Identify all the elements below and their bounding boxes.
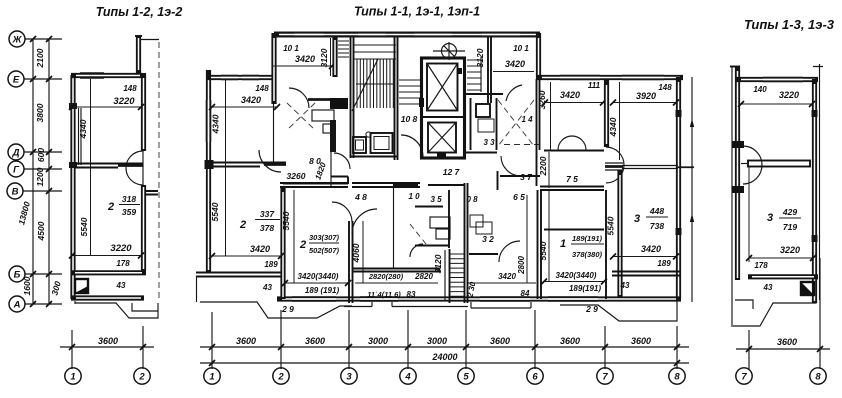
cupboard rects [312,110,334,121]
wall above strip 43 [748,274,818,279]
svg-text:1600: 1600 [22,276,32,295]
wc fixtures lower [430,217,450,228]
entrance vestibule steps [338,41,349,57]
stair direction diagonal [352,59,378,111]
svg-text:3: 3 [634,213,640,225]
svg-text:111: 111 [588,81,601,90]
porch outline bottom-right [560,301,677,321]
partition with leaf [748,161,810,167]
corridor bottom wall right part [540,187,604,191]
duct dark band [330,120,336,152]
svg-text:3120: 3120 [475,48,485,67]
axis leader lines [23,39,62,304]
landing steps by elevator [399,80,420,104]
elevator shaft divider [421,116,465,118]
left outer wall [70,75,75,299]
shelf edge [480,57,482,92]
svg-text:1: 1 [209,372,214,383]
svg-text:2 9: 2 9 [585,304,598,314]
window in top wall [80,73,104,78]
axis circle 8 right [810,368,826,384]
entrance semicircle door [743,146,762,184]
svg-text:738: 738 [650,221,664,231]
svg-text:3 5: 3 5 [430,195,442,204]
corridor bottom wall left part [280,183,465,187]
elevator car 1 with X [427,64,458,111]
stairwell left wall [351,37,354,158]
balcony door nubs right wall [812,110,818,117]
dim line row 1 [200,346,689,348]
svg-text:5540: 5540 [79,217,89,236]
svg-text:303(307): 303(307) [309,233,340,242]
stairwell right wall [395,37,398,160]
svg-text:448: 448 [649,206,664,216]
corridor door arc left [401,135,423,157]
svg-text:4500: 4500 [36,221,46,241]
kitchen wall [349,221,353,303]
door arcs hall to rooms [332,202,352,222]
svg-text:5540: 5540 [281,211,291,230]
svg-text:3120: 3120 [319,48,329,67]
axis circle Ж [9,31,25,47]
svg-text:1200: 1200 [35,167,45,186]
wall between room 10.1L and stairs [332,37,337,77]
windows tower top [294,34,520,36]
shelf steps [467,60,481,90]
svg-text:3: 3 [767,212,773,224]
svg-text:3420: 3420 [505,59,525,69]
vertical dimension lines left [33,39,49,304]
svg-text:Е: Е [13,75,20,86]
wall under small rooms row [415,206,443,208]
elevator car 2 with X [428,123,456,153]
svg-text:Типы 1-2, 1э-2: Типы 1-2, 1э-2 [96,5,183,19]
door arc room 148 [259,150,281,172]
svg-text:148: 148 [255,84,269,93]
stair upper landing lines [354,45,396,52]
interior dim extension lines [226,80,550,283]
top jog [730,66,740,68]
dashed door swing [410,224,426,244]
dimension ticks left column [30,36,52,307]
svg-text:2200: 2200 [538,156,548,176]
svg-text:3220: 3220 [110,243,132,254]
pier lines inner left [79,108,82,165]
wc partition walls [415,190,449,248]
svg-text:3420: 3420 [241,95,261,105]
svg-text:4340: 4340 [211,114,221,134]
porch outline below [75,301,158,318]
svg-text:В: В [12,187,19,198]
svg-text:189: 189 [657,259,671,268]
svg-text:Д: Д [12,148,20,159]
dim line 3220 upper [72,106,141,108]
svg-text:3420(3440): 3420(3440) [298,272,339,281]
svg-text:3 7: 3 7 [520,172,533,182]
left plan bottom dims [60,326,154,384]
wall jog above room 303 [331,177,348,185]
corridor line to room3 [622,166,694,169]
svg-text:3420: 3420 [295,54,315,64]
wall between room2L and hall [280,187,285,299]
svg-text:83: 83 [407,290,416,299]
svg-text:4060: 4060 [351,243,361,263]
top wall [735,77,818,82]
svg-text:337: 337 [260,209,275,219]
svg-text:84: 84 [521,289,530,298]
svg-text:11ʾ4(11 6): 11ʾ4(11 6) [367,290,401,299]
svg-text:148: 148 [658,83,672,92]
svg-text:318: 318 [122,194,136,204]
stair mid line [356,83,394,85]
svg-text:3: 3 [346,372,352,383]
svg-text:178: 178 [116,259,130,268]
wall between apt1 and room3 [605,190,607,299]
svg-text:1: 1 [560,238,566,250]
svg-text:189(191): 189(191) [572,234,603,243]
tower right wall [536,33,541,79]
svg-text:Б: Б [14,270,21,281]
svg-text:1 4: 1 4 [521,115,533,124]
svg-text:3420: 3420 [641,244,661,254]
entrance step lines bottom [344,302,531,308]
svg-text:429: 429 [782,207,797,217]
neighbour wall stub [146,191,158,195]
svg-text:3800: 3800 [35,103,45,122]
svg-text:4 8: 4 8 [354,192,367,202]
wall junction blobs [69,103,77,109]
porch outline [733,280,816,326]
svg-text:5540: 5540 [538,241,548,260]
windows bottom wall [292,298,598,300]
svg-text:178: 178 [754,261,768,270]
black box right [801,282,814,295]
svg-text:3260: 3260 [287,171,306,181]
roof line to section cut [141,39,159,41]
far right edge [813,64,823,300]
svg-text:6 5: 6 5 [513,192,525,202]
wall left of room 10.1 right [488,37,491,103]
balcony left wall strip [196,273,284,277]
svg-text:3420(3440): 3420(3440) [556,271,597,280]
wall kitchen right [393,187,395,268]
stair treads [357,59,393,108]
svg-text:4340: 4340 [78,119,88,139]
axis circle 2 left [134,368,150,384]
svg-text:2100: 2100 [35,48,45,68]
wall under room 3420 with double doors [544,150,604,152]
junction blob left wall [205,160,214,169]
elevator shaft outer box [422,58,465,158]
landing line [354,58,396,60]
corridor door arc right [501,156,521,176]
svg-text:3600: 3600 [777,337,797,347]
entrance semicircle door apt3 [606,147,624,183]
bottom wall [71,295,144,300]
right wall lower [141,185,146,271]
stair tower left wall [271,33,276,104]
axis circles 1-8 middle [204,368,685,384]
wall right of 3420 room [538,190,542,299]
svg-text:2800: 2800 [517,256,526,275]
svg-text:3220: 3220 [113,96,135,107]
svg-text:6: 6 [532,372,538,383]
stair hall door arc [334,153,350,169]
svg-text:189: 189 [264,260,278,269]
svg-text:43: 43 [763,283,773,292]
dim line room 10.1 right [493,71,534,73]
door arc in right wall [126,151,143,185]
svg-text:8: 8 [674,372,680,383]
svg-text:7 5: 7 5 [566,174,578,184]
right wall [812,79,817,303]
windows top-right wall [560,77,664,79]
partition hall wall left apt [206,163,286,167]
wall under room 10.1 left [308,98,336,101]
svg-text:10 1: 10 1 [283,44,299,53]
svg-text:7: 7 [741,372,747,383]
svg-text:Ж: Ж [12,35,23,46]
svg-text:3600: 3600 [236,336,256,346]
top wall [71,73,143,78]
svg-text:43: 43 [620,281,630,290]
svg-text:719: 719 [783,222,797,232]
svg-text:3600: 3600 [631,336,651,346]
right outer thin line with arrows [691,77,693,302]
interior dim extension line [90,79,92,255]
svg-text:3 2: 3 2 [482,234,494,244]
svg-text:3260: 3260 [537,90,547,109]
right wall upper [141,73,146,151]
top-left wall [206,75,276,80]
lower stair flight [450,183,468,303]
svg-text:189(191): 189(191) [569,284,601,293]
elevator door nubs [419,98,424,107]
window top-left wall [221,77,259,79]
svg-text:10 8: 10 8 [401,114,418,124]
upper right vestibule walls [470,98,472,150]
vestibule wall [466,93,503,95]
vestibule lower walls [465,153,540,191]
svg-text:2: 2 [299,239,306,251]
svg-text:3000: 3000 [427,336,447,346]
axis circle Г [8,161,24,177]
wall above room 11.4 [352,269,440,272]
left axis circles column [7,31,25,312]
mid partition wall with door leaf [74,164,143,168]
svg-text:140: 140 [753,85,767,94]
right dashed axis line [158,42,160,300]
closet dashed right 1.4 [498,100,539,146]
svg-text:24000: 24000 [431,352,457,362]
small door arc wc [410,244,423,257]
door arc room 3420 [499,241,520,262]
porch outline bottom-left [200,302,352,318]
wall above strip 43 right [612,272,681,276]
svg-text:2: 2 [277,372,284,383]
svg-text:189 (191): 189 (191) [305,286,340,295]
svg-text:12 7: 12 7 [443,167,461,177]
svg-text:3420: 3420 [498,272,516,281]
svg-text:Типы 1-3, 1э-3: Типы 1-3, 1э-3 [744,17,835,32]
svg-text:3000: 3000 [368,336,388,346]
svg-text:1 0: 1 0 [408,192,420,201]
tower top wall [274,32,540,38]
svg-text:2 9: 2 9 [281,304,294,314]
left outer wall [206,70,211,272]
svg-text:5540: 5540 [606,216,616,235]
svg-text:378: 378 [260,223,274,233]
axis circle Е [8,71,24,87]
axis circle В [7,183,23,199]
svg-text:1: 1 [70,372,75,383]
svg-text:148: 148 [123,84,137,93]
axis circle 7 right [736,368,752,384]
wall left of lower stairs [444,250,446,300]
middle plan bottom dims [200,310,689,384]
right outer wall [676,77,681,299]
svg-text:3600: 3600 [560,336,580,346]
door arc upper right room [506,85,522,101]
vertical wall hall/corridor [330,130,332,187]
axis circle Д [8,144,24,160]
svg-text:4: 4 [404,372,411,383]
svg-text:600: 600 [36,148,46,162]
dim line 3220 lower [72,255,141,257]
top-right stair tower jog [136,36,141,73]
right plan bottom dims [736,258,830,384]
svg-text:3 3: 3 3 [483,138,495,147]
svg-text:3220: 3220 [780,245,800,255]
svg-text:5540: 5540 [210,202,220,221]
svg-text:3600: 3600 [490,336,510,346]
wall right of tower continues down [537,79,540,186]
svg-text:43: 43 [116,281,126,290]
balcony top wall [71,270,146,275]
wall stubs left [732,141,744,148]
axis circle А [9,296,25,312]
window top wall [763,79,803,81]
svg-text:378(380): 378(380) [572,250,603,259]
svg-text:10 1: 10 1 [513,44,529,53]
balcony door nubs mid right wall [676,110,682,117]
top-right wall [537,75,683,80]
svg-text:359: 359 [122,207,136,217]
rotated dim labels left [16,48,63,296]
svg-text:2: 2 [239,219,246,231]
svg-text:43: 43 [262,283,272,292]
svg-text:5: 5 [463,372,469,383]
balcony black box [75,279,88,293]
axis circle 1 left [65,368,81,384]
svg-text:Типы 1-1, 1э-1, 1эп-1: Типы 1-1, 1э-1, 1эп-1 [354,5,480,19]
axis circle Б [9,266,25,282]
svg-text:8: 8 [815,372,821,383]
svg-text:7: 7 [602,372,608,383]
svg-text:2820: 2820 [414,272,433,281]
svg-text:3220: 3220 [779,90,799,100]
bottom outer wall [277,296,681,301]
svg-text:502(507): 502(507) [309,246,340,255]
svg-text:А: А [13,300,21,311]
svg-text:3420: 3420 [560,90,580,100]
dim line row 2 total [200,362,689,364]
svg-text:3920: 3920 [636,91,656,101]
svg-text:4340: 4340 [608,117,618,137]
svg-text:2: 2 [138,372,145,383]
svg-text:2: 2 [107,201,114,213]
window left wall [208,100,210,142]
wall under wc block [350,156,397,158]
closet dashed left [287,103,315,130]
wall right of room 3420 [604,80,609,147]
svg-text:3420: 3420 [250,244,270,254]
left cut edge line [731,66,733,327]
svg-text:3600: 3600 [305,336,325,346]
left wall [735,66,740,280]
svg-text:3120: 3120 [433,254,443,273]
wc block left of corridor [353,137,366,153]
svg-text:3600: 3600 [98,336,118,346]
survey mark symbol [442,44,457,59]
svg-text:2820(280): 2820(280) [368,272,404,281]
door arc room 10.1 left [289,88,309,108]
